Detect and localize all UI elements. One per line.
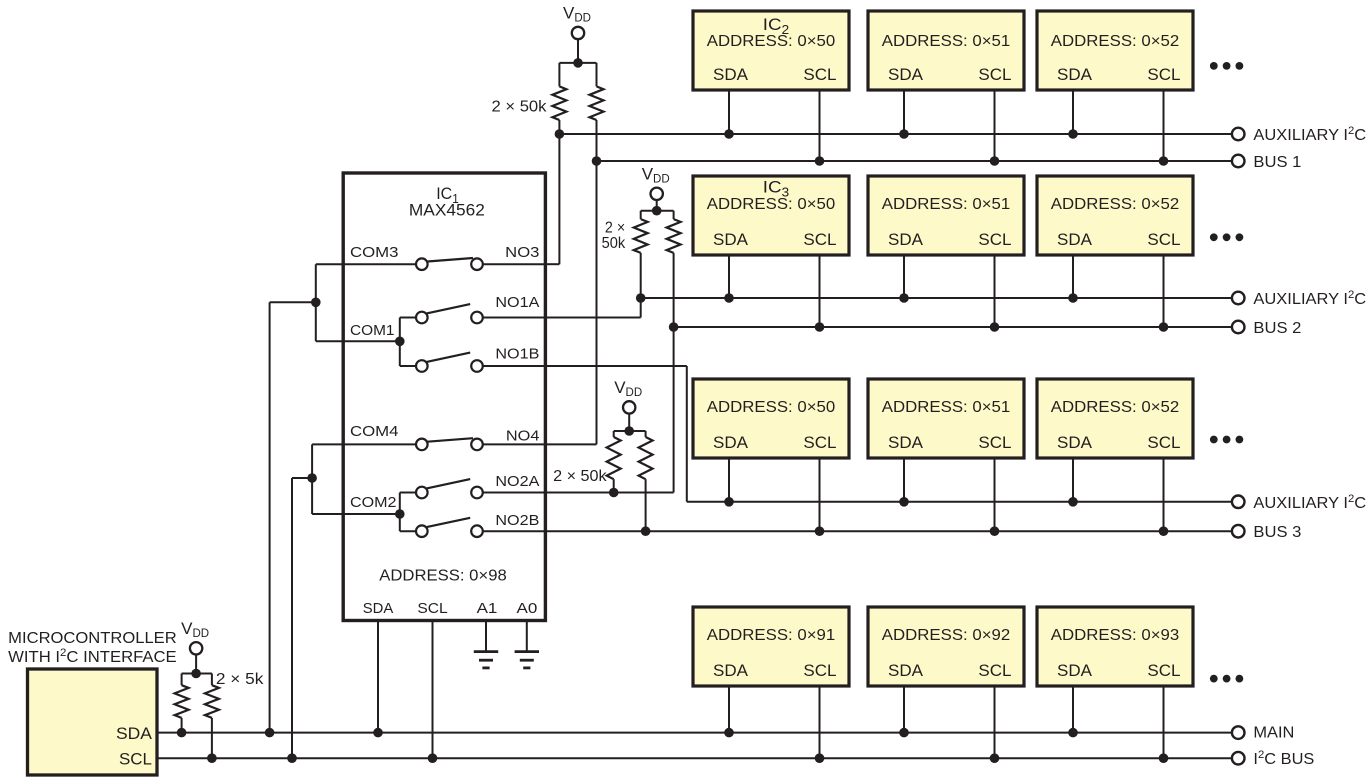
- svg-text:50k: 50k: [602, 235, 626, 252]
- svg-text:SDA: SDA: [363, 600, 394, 617]
- svg-text:SDA: SDA: [888, 65, 924, 84]
- svg-text:ADDRESS: 0×98: ADDRESS: 0×98: [379, 568, 507, 585]
- svg-text:SDA: SDA: [713, 433, 749, 452]
- svg-text:SDA: SDA: [888, 230, 924, 249]
- svg-text:2 × 50k: 2 × 50k: [492, 99, 547, 116]
- svg-text:SCL: SCL: [803, 433, 836, 452]
- svg-text:NO3: NO3: [505, 244, 539, 261]
- svg-text:ADDRESS: 0×93: ADDRESS: 0×93: [1051, 627, 1180, 644]
- svg-text:SDA: SDA: [713, 230, 749, 249]
- svg-text:ADDRESS: 0×92: ADDRESS: 0×92: [882, 627, 1011, 644]
- svg-text:SCL: SCL: [978, 230, 1011, 249]
- svg-text:SCL: SCL: [803, 661, 836, 680]
- svg-text:SCL: SCL: [119, 750, 152, 769]
- svg-text:ADDRESS: 0×50: ADDRESS: 0×50: [707, 33, 836, 50]
- svg-text:2 × 5k: 2 × 5k: [216, 671, 264, 688]
- svg-text:SCL: SCL: [1147, 661, 1180, 680]
- svg-text:COM1: COM1: [350, 322, 395, 339]
- svg-text:ADDRESS: 0×50: ADDRESS: 0×50: [707, 196, 836, 213]
- svg-text:MAIN: MAIN: [1253, 725, 1294, 742]
- svg-text:ADDRESS: 0×52: ADDRESS: 0×52: [1051, 399, 1180, 416]
- svg-text:BUS 2: BUS 2: [1253, 320, 1301, 337]
- svg-text:SCL: SCL: [978, 661, 1011, 680]
- svg-text:SCL: SCL: [803, 65, 836, 84]
- svg-text:A0: A0: [517, 600, 538, 617]
- svg-text:SCL: SCL: [1147, 433, 1180, 452]
- svg-text:SCL: SCL: [1147, 230, 1180, 249]
- svg-text:SCL: SCL: [978, 433, 1011, 452]
- svg-text:ADDRESS: 0×91: ADDRESS: 0×91: [707, 627, 836, 644]
- svg-text:BUS 3: BUS 3: [1253, 524, 1301, 541]
- svg-text:SDA: SDA: [888, 433, 924, 452]
- svg-text:COM2: COM2: [350, 494, 397, 511]
- svg-text:SCL: SCL: [1147, 65, 1180, 84]
- svg-text:SDA: SDA: [1057, 230, 1093, 249]
- svg-text:SCL: SCL: [978, 65, 1011, 84]
- svg-text:WITH I2C INTERFACE: WITH I2C INTERFACE: [8, 647, 176, 666]
- svg-text:NO1A: NO1A: [495, 294, 539, 311]
- svg-text:MAX4562: MAX4562: [409, 201, 485, 220]
- svg-text:COM3: COM3: [350, 244, 399, 261]
- svg-text:ADDRESS: 0×51: ADDRESS: 0×51: [882, 33, 1011, 50]
- svg-text:A1: A1: [477, 600, 498, 617]
- svg-text:NO4: NO4: [506, 427, 540, 444]
- svg-text:SDA: SDA: [888, 661, 924, 680]
- svg-text:NO2A: NO2A: [495, 473, 539, 490]
- svg-text:SDA: SDA: [1057, 661, 1093, 680]
- svg-text:SDA: SDA: [1057, 433, 1093, 452]
- svg-text:ADDRESS: 0×50: ADDRESS: 0×50: [707, 399, 836, 416]
- svg-text:NO2B: NO2B: [495, 512, 539, 529]
- svg-text:SCL: SCL: [803, 230, 836, 249]
- svg-text:COM4: COM4: [350, 423, 399, 440]
- svg-text:ADDRESS: 0×52: ADDRESS: 0×52: [1051, 196, 1180, 213]
- svg-text:SDA: SDA: [116, 724, 153, 743]
- svg-text:ADDRESS: 0×52: ADDRESS: 0×52: [1051, 33, 1180, 50]
- svg-text:NO1B: NO1B: [495, 346, 539, 363]
- svg-text:SDA: SDA: [713, 661, 749, 680]
- svg-text:2 × 50k: 2 × 50k: [553, 468, 607, 485]
- svg-text:SDA: SDA: [713, 65, 749, 84]
- svg-text:ADDRESS: 0×51: ADDRESS: 0×51: [882, 399, 1011, 416]
- svg-text:BUS 1: BUS 1: [1253, 154, 1301, 171]
- svg-text:SCL: SCL: [417, 600, 447, 617]
- svg-text:SDA: SDA: [1057, 65, 1093, 84]
- svg-text:MICROCONTROLLER: MICROCONTROLLER: [8, 630, 177, 647]
- svg-text:ADDRESS: 0×51: ADDRESS: 0×51: [882, 196, 1011, 213]
